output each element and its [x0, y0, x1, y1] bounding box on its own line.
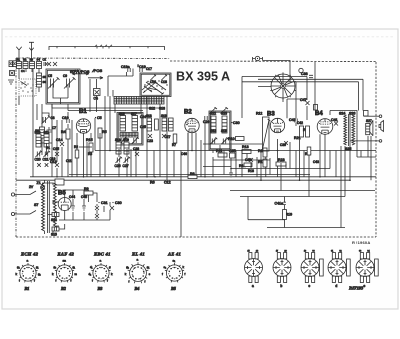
- svg-text:B3: B3: [267, 112, 275, 118]
- speaker terminal top: [364, 115, 382, 118]
- tone switch box: [55, 179, 64, 185]
- svg-text:S18: S18: [115, 138, 121, 142]
- coil S18 osc padder: [146, 114, 152, 131]
- resistor R17: [258, 159, 267, 167]
- capacitor C19a: [121, 65, 130, 72]
- capacitor C30a: [110, 201, 122, 210]
- coil S19 osc: [161, 114, 167, 131]
- label POS with arrow: [88, 68, 103, 79]
- svg-text:C8: C8: [51, 116, 55, 120]
- svg-text:C42: C42: [297, 121, 303, 125]
- svg-text:C17: C17: [146, 67, 152, 71]
- resistor R15: [86, 138, 93, 152]
- label C24: [140, 115, 146, 119]
- svg-text:B4: B4: [134, 286, 140, 291]
- svg-text:b: b: [280, 284, 282, 288]
- coil S18: [115, 138, 121, 154]
- wire left arrow line: [90, 69, 133, 113]
- svg-text:S7: S7: [34, 203, 38, 207]
- svg-text:₂₈: ₂₈: [284, 248, 286, 252]
- tube B1 (ECH42 mixer): [76, 119, 90, 133]
- svg-text:g₂: g₂: [38, 272, 41, 276]
- label C25: [140, 125, 146, 129]
- mains switch S7: [15, 191, 36, 214]
- label C2 C3 dots: [46, 64, 47, 65]
- svg-text:a₁: a₁: [173, 259, 176, 263]
- oscillator switch box S12 S13: [140, 73, 171, 97]
- wire gang to IF1: [52, 104, 164, 111]
- svg-text:C1: C1: [43, 58, 47, 62]
- svg-text:B1: B1: [79, 109, 87, 115]
- svg-text:C9: C9: [63, 74, 67, 78]
- junction dots: [56, 150, 351, 181]
- output transformer core: [348, 114, 350, 146]
- trimmer C20: [35, 151, 43, 162]
- svg-text:₁₇: ₁₇: [276, 248, 278, 252]
- tube B4 (EL41 output): [317, 119, 333, 135]
- bus wire y150: [95, 150, 376, 152]
- alignment socket A: [245, 248, 263, 288]
- svg-text:d: d: [335, 284, 337, 288]
- svg-text:C18: C18: [161, 80, 167, 84]
- capacitor C3: [53, 62, 57, 66]
- label C43: [313, 160, 319, 164]
- coil S23: [222, 116, 227, 133]
- svg-text:a: a: [252, 284, 254, 288]
- coil S10: [35, 131, 42, 148]
- mains terminal lower: [11, 212, 14, 215]
- label C17: [146, 67, 152, 71]
- svg-text:S17: S17: [131, 112, 137, 116]
- svg-text:R3: R3: [88, 152, 92, 156]
- bus wire y227: [267, 227, 345, 229]
- label C42: [297, 121, 303, 125]
- trimmer C33: [210, 137, 217, 144]
- wire gang internal: [53, 84, 68, 104]
- svg-text:S11: S11: [44, 131, 50, 135]
- resistor R19: [283, 210, 292, 220]
- bus wire y177: [30, 176, 376, 178]
- wire osc cluster: [37, 104, 52, 143]
- trimmer C16: [150, 75, 156, 81]
- transformer taps: [56, 190, 59, 226]
- bus wire y190: [230, 190, 375, 192]
- variable capacitor C9: [64, 77, 76, 88]
- coil S4: [37, 62, 42, 69]
- svg-text:₂₆: ₂₆: [256, 248, 258, 252]
- resistor R5: [98, 128, 107, 138]
- capacitor C13a: [45, 163, 49, 167]
- resistor R6a: [155, 119, 159, 130]
- resistor R4: [61, 129, 70, 139]
- trimmer C18: [161, 75, 167, 81]
- capacitor C10a: [37, 163, 41, 167]
- power transformer secondary: [54, 183, 57, 228]
- wire verticals right: [213, 62, 371, 228]
- capacitor C13: [50, 160, 59, 167]
- svg-text:C15: C15: [53, 147, 59, 151]
- svg-text:C41a: C41a: [275, 202, 284, 206]
- electrolytic C44: [69, 195, 75, 210]
- svg-text:B1: B1: [24, 286, 30, 291]
- coil S22: [211, 116, 216, 133]
- label R7: [172, 134, 177, 147]
- resistor R8: [188, 172, 197, 179]
- svg-text:R2: R2: [74, 145, 78, 149]
- alignment socket C: [301, 248, 323, 288]
- label C2 dot: [27, 57, 39, 58]
- svg-text:S14: S14: [51, 218, 57, 222]
- capacitor C2: [47, 62, 51, 66]
- label C30 pointer: [231, 121, 239, 125]
- capacitor C43 tone: [364, 111, 369, 117]
- capacitor C15: [53, 147, 59, 156]
- terminal strip: [9, 61, 16, 67]
- bus wire y174: [69, 174, 310, 176]
- capacitor C29: [203, 116, 210, 124]
- chassis dashed border bottom: [16, 236, 376, 238]
- svg-text:C27: C27: [123, 164, 129, 168]
- wire top bus pair: [242, 77, 363, 87]
- svg-text:S5: S5: [43, 75, 47, 79]
- resistor R24 grid stopper: [314, 105, 318, 111]
- IF transformer 2 box: [209, 111, 231, 150]
- capacitor C10: [62, 116, 69, 123]
- svg-text:C46: C46: [181, 152, 187, 156]
- capacitor C28: [133, 147, 139, 156]
- label S12 S13: [149, 107, 165, 111]
- trimmer C34: [221, 137, 228, 144]
- IF transformer 1 box: [117, 113, 143, 146]
- socket diagram B1: [16, 259, 41, 283]
- capacitor C35: [229, 149, 236, 158]
- wire phono to grid bus: [263, 61, 291, 65]
- svg-text:EBC 41: EBC 41: [93, 252, 111, 257]
- svg-text:S19: S19: [123, 138, 129, 142]
- svg-text:C11: C11: [66, 159, 72, 163]
- output transformer frame S24 S26: [330, 111, 357, 116]
- electrolytic C45: [81, 195, 87, 210]
- svg-text:C43: C43: [313, 160, 319, 164]
- output transformer primary winding: [344, 115, 347, 145]
- svg-text:R1: R1: [46, 146, 50, 150]
- chassis dashed border left: [15, 58, 17, 237]
- svg-text:S1: S1: [17, 58, 21, 62]
- wire coil row to switch box: [19, 69, 39, 93]
- label C46: [181, 152, 187, 156]
- socket diagram B5: [162, 259, 186, 283]
- svg-text:R10: R10: [228, 137, 235, 141]
- svg-text:g₂: g₂: [126, 265, 129, 269]
- svg-text:C23: C23: [147, 139, 153, 143]
- tube B2 (EAF42 IF/det): [185, 118, 199, 132]
- capacitor C14: [56, 138, 64, 146]
- svg-text:S24: S24: [339, 112, 345, 116]
- wire verticals middle: [113, 90, 205, 237]
- svg-text:S23: S23: [221, 112, 227, 116]
- svg-text:R7: R7: [172, 143, 176, 147]
- resistor R22: [303, 126, 310, 137]
- coil S16: [120, 116, 126, 132]
- coil S5: [37, 73, 42, 87]
- svg-text:g₁: g₁: [147, 265, 150, 269]
- svg-text:B4: B4: [315, 111, 323, 117]
- chassis dashed border top left: [16, 57, 170, 60]
- wire R19 drop: [248, 197, 285, 228]
- trimmer C22: [120, 137, 127, 144]
- label C12: [164, 181, 171, 185]
- chassis dashed border top right: [170, 60, 376, 63]
- speaker voice coil: [366, 119, 372, 135]
- range arrow: [72, 73, 89, 75]
- trimmer C21: [43, 151, 51, 162]
- svg-text:S6: S6: [43, 80, 47, 84]
- svg-text:S2: S2: [23, 58, 27, 62]
- svg-text:C20: C20: [35, 158, 41, 162]
- svg-text:S3: S3: [30, 58, 34, 62]
- label C39: [280, 141, 288, 147]
- dial pulley: [299, 68, 303, 72]
- svg-text:R12: R12: [256, 112, 262, 116]
- label S18 S19 inner: [211, 129, 227, 133]
- svg-text:R15: R15: [86, 138, 93, 142]
- wire transformer leads: [43, 180, 54, 234]
- antenna A2 earth: [29, 42, 34, 61]
- label R6: [150, 181, 155, 185]
- svg-text:R5: R5: [102, 130, 107, 134]
- socket diagram B4: [125, 258, 151, 284]
- resistor R14: [239, 163, 252, 168]
- electrolytic C37 with ground: [229, 168, 233, 177]
- speaker terminal bottom: [350, 140, 382, 143]
- trimmer C27: [123, 157, 131, 168]
- capacitor C27a: [162, 134, 171, 139]
- resistor R9: [84, 187, 93, 195]
- coil S3: [30, 62, 35, 69]
- wire y160: [213, 159, 270, 161]
- svg-text:B5: B5: [170, 286, 176, 291]
- capacitor C32: [95, 214, 99, 218]
- label C5 pointer: [95, 116, 102, 120]
- label R2: [74, 145, 79, 158]
- oscillator trimmer C8: [42, 115, 51, 124]
- capacitor C19: [137, 64, 146, 72]
- svg-text:d₁: d₁: [90, 265, 93, 269]
- resistor R13: [242, 145, 251, 154]
- switch contact arrows: [142, 80, 166, 94]
- tube B3 (EBC41 af amp): [270, 118, 284, 132]
- svg-text:₃₂: ₃₂: [339, 248, 341, 252]
- svg-text:S19: S19: [221, 129, 227, 133]
- svg-text:R !1960A: R !1960A: [352, 240, 370, 245]
- alignment socket D: [328, 248, 350, 288]
- svg-text:g₃: g₃: [54, 265, 57, 269]
- wire y144: [203, 143, 262, 145]
- label R18: [248, 169, 254, 173]
- coil S2: [23, 62, 28, 69]
- tube B5 (AZ41 rectifier): [58, 198, 71, 211]
- wire y166: [203, 166, 231, 168]
- svg-text:C35: C35: [229, 149, 236, 153]
- antenna A1: [16, 47, 21, 61]
- resistor R11: [216, 149, 227, 157]
- svg-text:C44: C44: [69, 195, 75, 199]
- resistor R21: [294, 126, 304, 140]
- svg-text:R6: R6: [150, 181, 155, 185]
- svg-text:C7: C7: [52, 126, 56, 130]
- bus wire y168: [231, 168, 330, 170]
- svg-text:EL 41: EL 41: [131, 252, 145, 257]
- choke S15: [51, 227, 59, 237]
- ground lug: [8, 80, 14, 84]
- svg-text:R18: R18: [248, 169, 254, 173]
- svg-text:g₁: g₁: [73, 265, 76, 269]
- svg-text:C26: C26: [115, 164, 121, 168]
- svg-text:EAF 42: EAF 42: [57, 252, 75, 257]
- wire B2 cathode: [187, 133, 189, 151]
- tuning drive wheel: [270, 72, 295, 99]
- chassis dashed border right: [375, 62, 377, 237]
- dial lamp: [41, 186, 45, 190]
- capacitor C23a: [147, 134, 153, 143]
- wire bus drops: [242, 64, 363, 120]
- oscillator coil S8: [40, 127, 45, 138]
- coil S16a hatch: [120, 133, 138, 138]
- terminal screw: [10, 71, 15, 76]
- coil S1: [17, 62, 22, 69]
- svg-text:AZ 41: AZ 41: [167, 252, 181, 257]
- alignment socket E: [356, 248, 378, 288]
- svg-text:Z1: Z1: [37, 181, 41, 185]
- dial scale: [49, 47, 165, 51]
- svg-text:P.57193: P.57193: [349, 286, 364, 291]
- power transformer primary: [42, 183, 45, 231]
- svg-text:BX 395 A: BX 395 A: [176, 70, 230, 84]
- variable capacitor C5: [48, 77, 60, 88]
- capacitor C1: [44, 62, 46, 66]
- svg-text:C16: C16: [150, 80, 156, 84]
- label C11: [66, 159, 72, 163]
- svg-text:S19: S19: [161, 114, 167, 118]
- resistor R3: [88, 152, 92, 156]
- bus wire y180: [16, 179, 350, 181]
- bus wire y196: [240, 197, 345, 220]
- svg-text:C30: C30: [115, 201, 122, 205]
- svg-text:C19a: C19a: [121, 65, 130, 69]
- svg-text:2V: 2V: [29, 185, 34, 189]
- svg-text:S8: S8: [35, 129, 39, 133]
- svg-text:B2: B2: [60, 286, 66, 291]
- resistor R16: [258, 148, 267, 157]
- svg-text:S27: S27: [366, 119, 372, 123]
- svg-text:ECH 42: ECH 42: [20, 252, 39, 257]
- socket diagram B3: [89, 259, 114, 283]
- tuning gang box C5/C9: [46, 69, 80, 104]
- coil S21: [169, 118, 174, 131]
- svg-text:C4: C4: [21, 69, 25, 73]
- svg-text:g₁: g₁: [36, 265, 39, 269]
- svg-text:S22: S22: [210, 112, 216, 116]
- svg-text:C30: C30: [233, 121, 240, 125]
- capacitor C41a: [275, 202, 286, 206]
- svg-text:₃₃: ₃₃: [359, 248, 361, 252]
- mains terminal upper: [11, 193, 14, 196]
- speaker cone: [370, 120, 373, 136]
- svg-text:d₂: d₂: [89, 272, 92, 276]
- svg-text:C12: C12: [164, 181, 171, 185]
- label C18: [161, 80, 167, 84]
- loudspeaker icon: [379, 121, 384, 132]
- svg-text:C4: C4: [94, 97, 98, 101]
- svg-text:C5: C5: [48, 74, 52, 78]
- capacitor C7: [47, 127, 52, 136]
- svg-text:C25: C25: [140, 125, 146, 129]
- power transformer core: [48, 181, 50, 233]
- capacitor C6: [94, 89, 101, 101]
- svg-text:S15: S15: [51, 233, 57, 237]
- svg-text:B2: B2: [184, 110, 192, 116]
- svg-text:╹C19: ╹C19: [137, 64, 146, 69]
- coil S19: [123, 138, 129, 154]
- svg-text:c: c: [308, 284, 310, 288]
- svg-text:a₂: a₂: [164, 265, 167, 269]
- wire link: [79, 146, 92, 148]
- band switch contacts: [21, 82, 28, 86]
- svg-text:C24: C24: [140, 115, 146, 119]
- svg-text:S16: S16: [119, 112, 125, 116]
- alignment socket B: [273, 248, 291, 288]
- svg-text:C19: C19: [50, 157, 56, 161]
- wire speaker bus: [357, 156, 376, 158]
- svg-text:C21: C21: [43, 158, 49, 162]
- socket diagram B2: [52, 259, 78, 283]
- svg-text:C5: C5: [97, 116, 102, 120]
- wire power section: [48, 190, 110, 229]
- svg-text:B3: B3: [97, 286, 103, 291]
- capacitor C40: [289, 118, 297, 123]
- capacitor C47: [300, 98, 310, 105]
- faint perforation line: [5, 36, 395, 38]
- svg-text:aa: aa: [63, 259, 67, 263]
- trimmer arrows S22 S23: [210, 107, 229, 113]
- coil S11: [44, 131, 50, 148]
- svg-text:R11: R11: [216, 149, 222, 153]
- resistor R10: [228, 137, 244, 142]
- choke S14: [51, 213, 59, 223]
- label R20: [305, 147, 311, 156]
- band switch box (dotted): [19, 79, 36, 96]
- trimmer C23: [132, 137, 139, 144]
- svg-text:C31: C31: [101, 201, 108, 205]
- capacitor C36: [245, 158, 253, 162]
- coil S17: [132, 116, 138, 132]
- phono input socket: [253, 56, 263, 60]
- svg-text:S12: S12: [149, 107, 155, 111]
- svg-text:∕POS: ∕POS: [92, 68, 102, 73]
- coil former bar S10-S13: [114, 97, 164, 105]
- resistor R23: [276, 158, 286, 166]
- svg-text:₁₅: ₁₅: [248, 248, 250, 252]
- capacitor C31: [95, 201, 108, 210]
- svg-text:R13: R13: [242, 145, 249, 149]
- wire verticals left: [19, 69, 110, 177]
- dial scale ticks: [57, 45, 148, 49]
- wire B5 heater tap: [53, 200, 58, 204]
- capacitor C41: [331, 118, 338, 126]
- capacitor C38: [301, 72, 313, 78]
- svg-text:₁₉: ₁₉: [304, 248, 306, 252]
- label R1: [46, 146, 50, 150]
